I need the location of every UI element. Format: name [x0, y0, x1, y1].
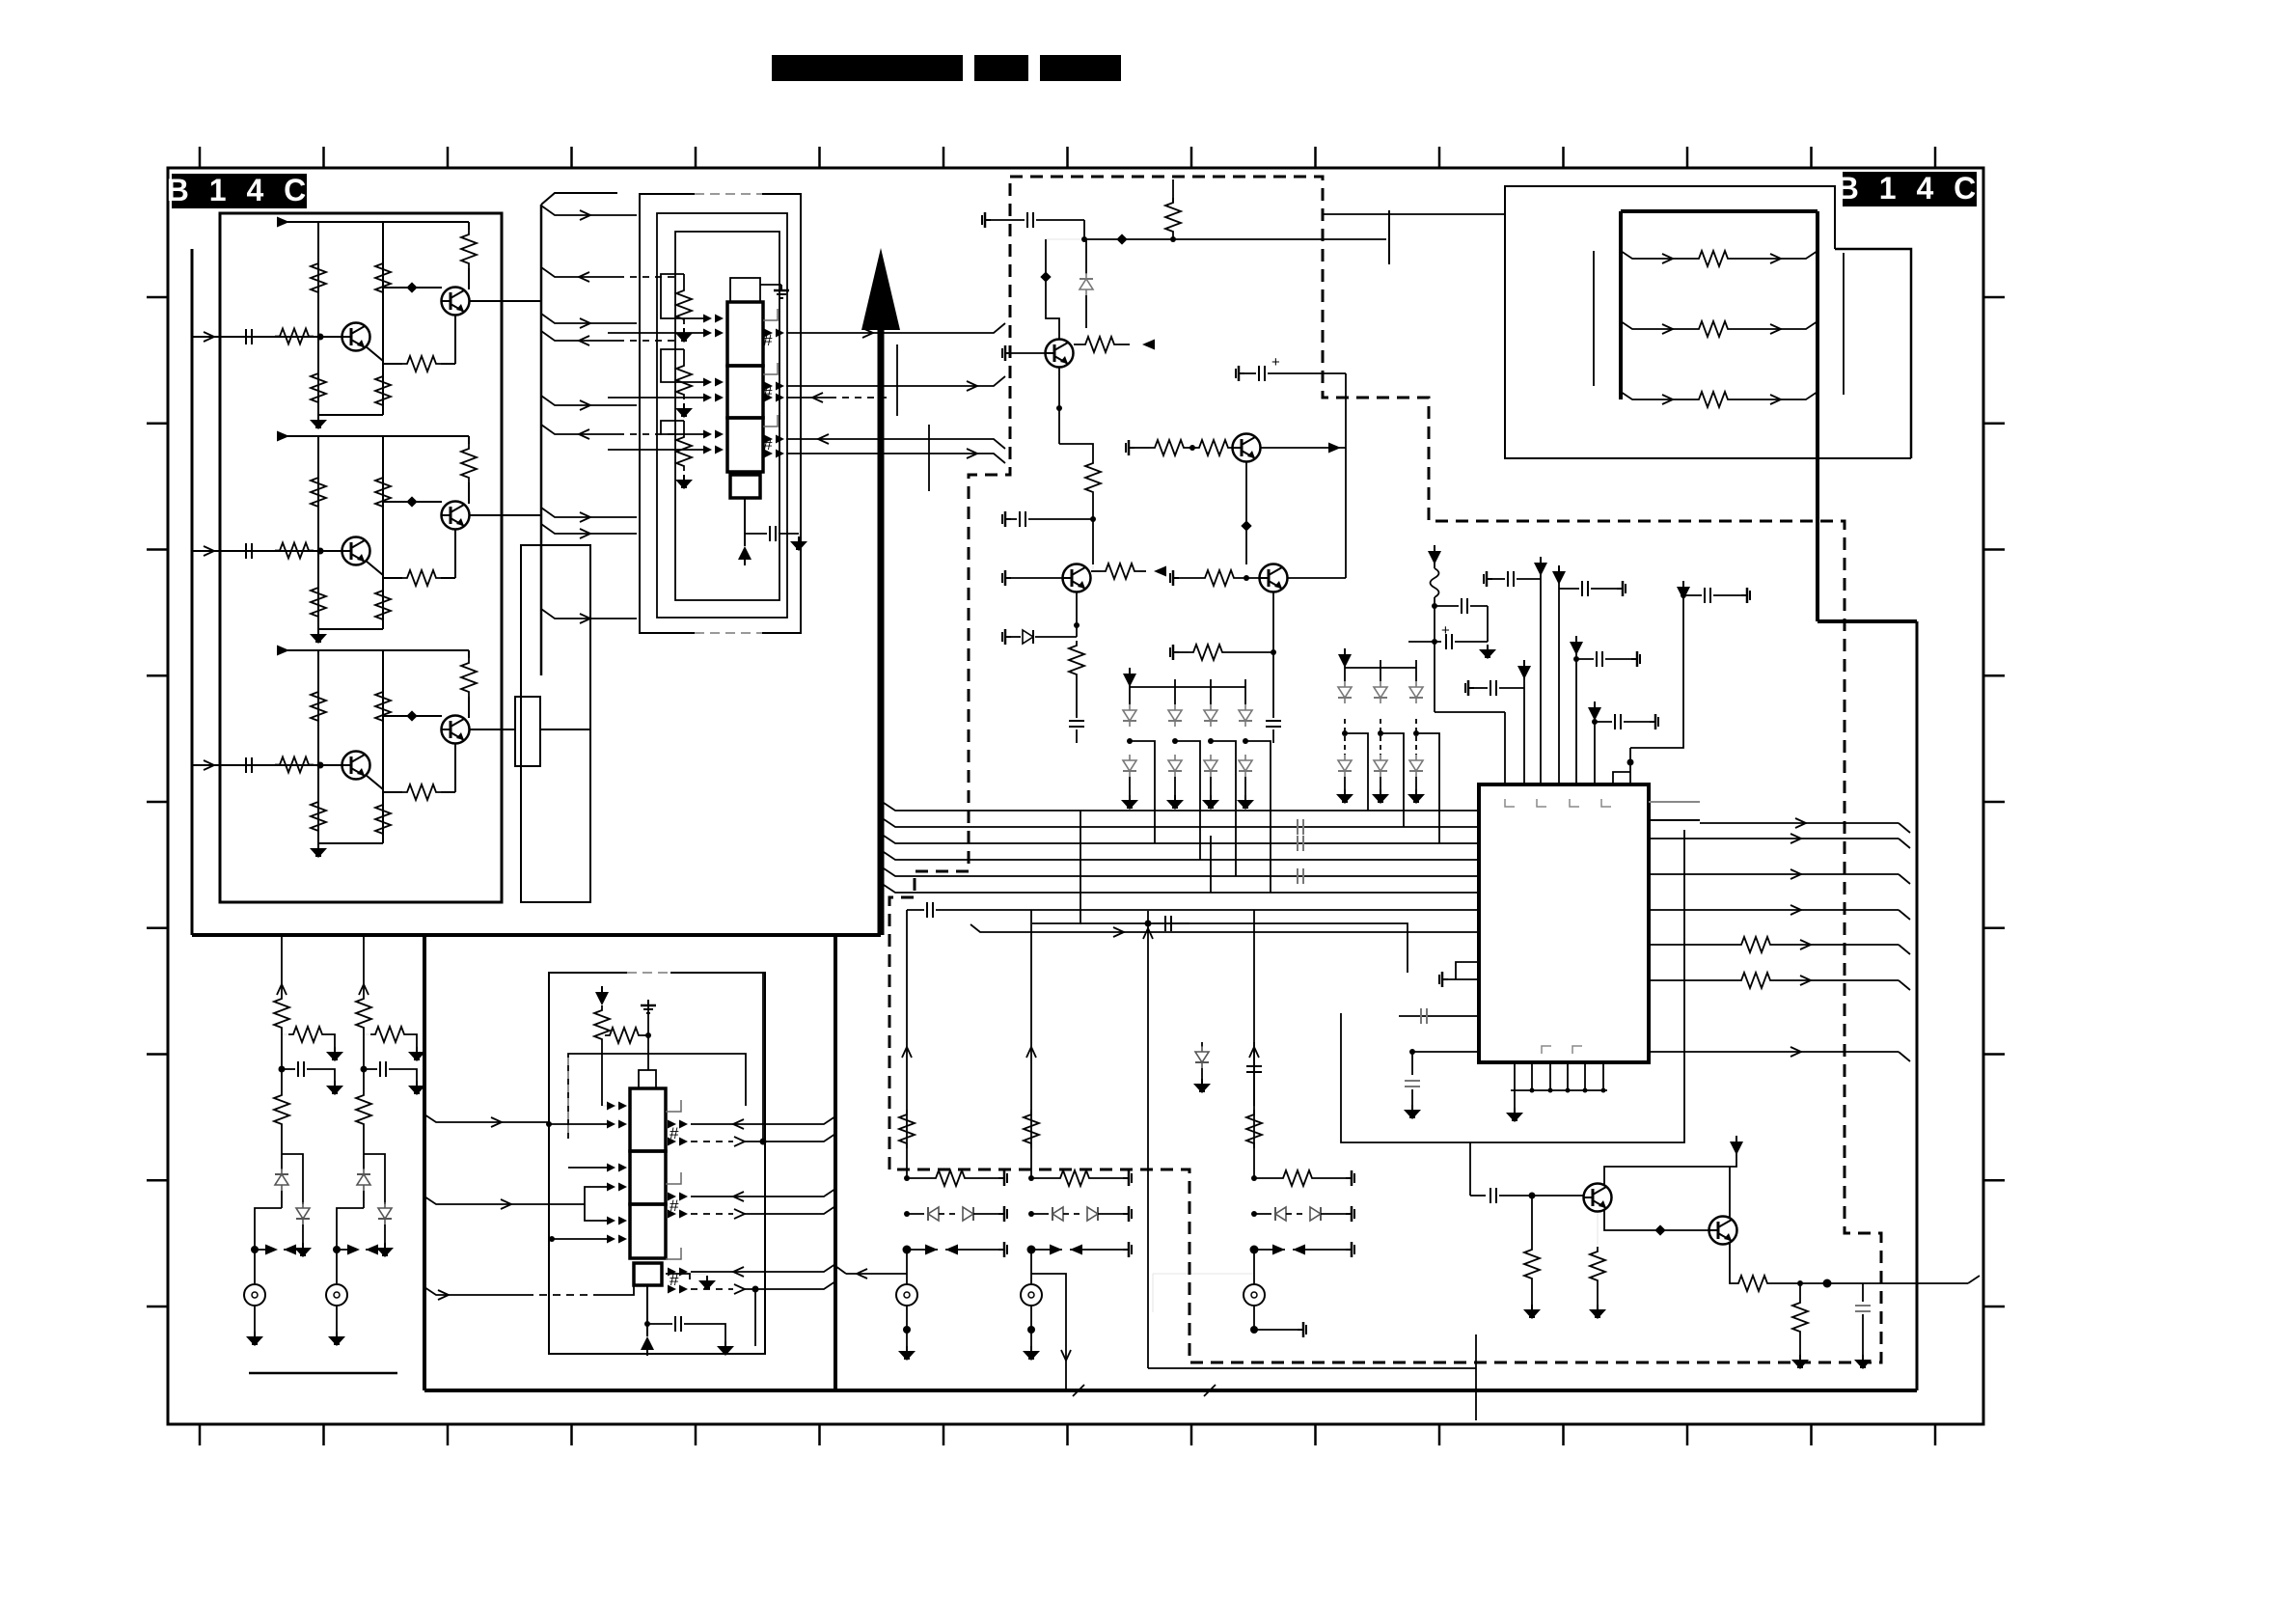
resistor R4h row [1028, 1175, 1034, 1181]
terminal Q5b base [1002, 570, 1011, 586]
resistor R35 [375, 800, 391, 839]
wire bus branch 7 [541, 508, 637, 517]
zener D1a [275, 1169, 288, 1191]
wire CN2 out row 3 [691, 1189, 835, 1197]
capacitor C15 branch [1573, 656, 1579, 662]
wire cap down [1487, 606, 1489, 642]
shield box outer connector 1 [640, 194, 801, 633]
wire IC bottom link [1469, 1142, 1471, 1196]
resistor R32 [311, 687, 326, 726]
jack J4 [1030, 1250, 1032, 1284]
resistor R58 [1799, 1283, 1801, 1298]
baseline under jacks [249, 1372, 397, 1375]
wire CN2 in row 1 [424, 1114, 608, 1124]
node 1a [317, 334, 324, 341]
jack J3 [906, 1250, 908, 1284]
wire jack3 left arrow [846, 1273, 907, 1275]
bus wire 3 [884, 836, 1479, 843]
wire top rail stage 1 [284, 221, 469, 223]
resistor R19 bias [683, 349, 685, 361]
IC bracket mark 2 [1537, 799, 1546, 807]
wire cross vertical 1 [1080, 811, 1081, 924]
wire array A tap 3 [1211, 741, 1236, 876]
wire divider left 1 [317, 222, 319, 415]
capacitor C21 stub [1002, 511, 1011, 527]
bus wire 1 [884, 803, 1479, 811]
pin CN2 left 3 [607, 1164, 627, 1172]
ground R56 [1589, 1305, 1606, 1319]
wire pin row 412 [608, 397, 704, 399]
wire res to pin 0 [684, 273, 727, 275]
transistor Q3a [342, 752, 370, 780]
shield box connector 2 [549, 973, 765, 1354]
wire CN2 feed 1 [602, 1105, 617, 1107]
pin CN2 left 2 [607, 1120, 627, 1129]
wire base link 1 [383, 287, 442, 289]
diode array B top bus [1345, 667, 1416, 669]
power arrow CN2 [641, 1336, 654, 1356]
resistor R17 feedback [383, 363, 402, 365]
IC bracket bottom 2 [1572, 1046, 1582, 1054]
diode row D5a [1251, 1211, 1257, 1217]
resistor R55 [1531, 1196, 1533, 1245]
resistor R34 top [1172, 193, 1174, 203]
IC output wire 2 [1649, 873, 1899, 875]
connector CN1 bottom [730, 475, 760, 498]
resistor R35 [1074, 344, 1080, 345]
resistor R36 [1085, 458, 1101, 497]
connector CN1 top cap box [730, 278, 760, 302]
transistor Q3b [442, 716, 470, 744]
svg-text:#: # [763, 383, 773, 401]
IC output wire 6 [1649, 1051, 1899, 1053]
wire box lower-left of IC [1032, 923, 1408, 973]
pin CN2 right 1 [668, 1120, 688, 1129]
pin CN1 right 3 [764, 394, 784, 402]
wire chain 1 branch [282, 1154, 303, 1204]
resistor R12 [311, 259, 326, 297]
resistor R3h row [904, 1175, 910, 1181]
pin CN1 right 5 [764, 450, 784, 458]
node chain 1 [281, 1032, 283, 1069]
capacitor C17 branch [1681, 592, 1686, 598]
ground D3 [1202, 795, 1219, 810]
wire Q6b collector [1288, 577, 1346, 579]
transistor Q4 [1233, 434, 1261, 462]
title block redaction bar 2 [974, 55, 1028, 81]
ground rail top of bottom section [192, 933, 881, 937]
bus rail vertical mid [834, 935, 837, 1390]
node pin1 [1432, 603, 1437, 609]
sub box right of RGB block [521, 545, 590, 902]
coupling box stage 3 [515, 697, 540, 766]
wire res to pin 2 [684, 420, 727, 422]
bus coupling capacitor c [1298, 868, 1303, 884]
supply arrow pin1 [1428, 545, 1441, 564]
IC bracket mark 4 [1601, 799, 1611, 807]
IC right stub wire 2 [1649, 819, 1700, 821]
wire yoke feed upper [1324, 213, 1505, 215]
wire CN2 in row 3 [424, 1187, 608, 1204]
pin CN2 right 6 [668, 1285, 688, 1294]
diode D4b [1239, 755, 1252, 777]
pin CN1 left 6 [703, 446, 724, 454]
pin CN1 right 2 [764, 382, 784, 391]
wire bus branch 8 [541, 524, 637, 534]
wire IC ground lead [1514, 1090, 1516, 1108]
jack J1 [244, 1284, 265, 1306]
diode D5a [1344, 660, 1346, 681]
yoke stub right [1843, 253, 1845, 395]
resistor R33 [311, 797, 326, 836]
RGB amplifier block outline [220, 213, 502, 902]
diode D4a [1244, 679, 1246, 704]
node arrow stage 1 [277, 217, 289, 228]
IC pin wire 1 [1504, 712, 1506, 784]
diode D1b [296, 1202, 310, 1224]
bus wire 4 [884, 852, 1479, 860]
wire jack5 bar [1254, 1329, 1298, 1331]
svg-text:B 1 4 C: B 1 4 C [167, 173, 312, 207]
inductor L1 [1434, 557, 1435, 568]
pin CN2 left 1 [607, 1102, 627, 1111]
capacitor C21 [246, 543, 252, 559]
wire to cap [745, 533, 767, 535]
wire res to pin 1 [684, 348, 727, 350]
ground D5 [1336, 789, 1353, 804]
resistor R13 [311, 369, 326, 407]
terminal bar [1388, 210, 1390, 264]
wire input Q5 [1470, 1195, 1486, 1197]
diode D1a [1129, 679, 1131, 704]
yoke coil resistor R32 [1621, 392, 1694, 399]
pin CN1 left 5 [703, 430, 724, 439]
supply arrow Q5 [1730, 1136, 1743, 1155]
wire bus branch 9 [541, 609, 637, 619]
jack J5 [1253, 1250, 1255, 1284]
wire emitter 1 [454, 315, 456, 364]
pin CN2 right 5 [668, 1268, 688, 1277]
pin CN2 right 4 [668, 1210, 688, 1219]
connector CN1 body 2 [727, 366, 763, 418]
diode D8 [1085, 239, 1087, 274]
wire CN1 in 1 [786, 397, 830, 399]
bus wire 7 with capacitor [907, 909, 924, 911]
resistor R2c [363, 1069, 365, 1090]
shield box inner connector 1 [675, 232, 779, 600]
resistor R31 [275, 757, 314, 773]
IC pin wire 2 [1523, 668, 1525, 784]
wire array A tap 4 [1245, 741, 1271, 893]
yoke inner box 2 [1835, 249, 1911, 458]
wire Q5 collector [1604, 1149, 1736, 1185]
terminal stub IC left [1439, 972, 1448, 987]
capacitor C16 branch [1592, 719, 1598, 725]
wire jack 4 bottom [1030, 1306, 1032, 1330]
wire CN1 out 1 [786, 323, 1005, 333]
svg-text:#: # [763, 435, 773, 454]
wire CN2 in row 4 [585, 1204, 608, 1221]
pin CN1 left 3 [703, 378, 724, 387]
ground stage 3 [310, 843, 327, 858]
wire CN2 out row 4 dashed [691, 1213, 733, 1215]
arrow row 4 [1027, 1246, 1036, 1254]
ground J2 [336, 1306, 338, 1332]
yoke outer box [1505, 186, 1911, 458]
bus wire 2 [884, 819, 1479, 827]
ground D1b [294, 1243, 312, 1257]
capacitor C31 [1490, 1188, 1496, 1203]
bottom thick rail [424, 1389, 1917, 1392]
connector CN2 body 1 [630, 1088, 666, 1151]
ground D1 [1121, 795, 1138, 810]
wire chain 2 drop [363, 935, 365, 994]
wire array A tap 2 [1175, 741, 1200, 860]
diode D3a [1210, 679, 1212, 704]
wire jack 5 bottom [1253, 1306, 1255, 1330]
bus coupling capacitor a [1298, 819, 1303, 835]
capacitor C31 [246, 757, 252, 773]
capacitor C23 polarized [1236, 366, 1244, 381]
wire bus branch 4 [541, 331, 617, 341]
wire CN2 bottom stub [666, 1274, 690, 1279]
ground C11 [1479, 645, 1496, 659]
wire emitter Q3a [366, 775, 383, 789]
terminal Q3 base [1002, 345, 1011, 361]
IC pin wire 4 [1558, 573, 1560, 784]
node array B 1 [1342, 730, 1348, 736]
diode D2b [378, 1202, 392, 1224]
wire top rail stage 3 [284, 649, 469, 651]
bus rail vertical left [423, 935, 426, 1390]
diode D7a [1415, 660, 1417, 681]
bracket CN2 right 1 [666, 1100, 681, 1112]
signal bus vertical [540, 205, 543, 675]
dashed module boundary [889, 177, 1881, 1362]
diode D2a [1174, 679, 1176, 704]
ground D6 [1372, 789, 1389, 804]
transistor Q2b [442, 502, 470, 530]
terminal R39 R40 base chain [1126, 440, 1134, 455]
capacitor C11 [246, 329, 252, 344]
node array A 1 [1127, 738, 1133, 744]
capacitor C10 [1435, 605, 1459, 607]
transistor Q6b [1260, 564, 1288, 592]
diode D1b [1123, 755, 1136, 777]
wire array B tap 3 [1416, 733, 1439, 843]
ground R19 [675, 403, 693, 418]
wire bus branch 3 [541, 314, 637, 323]
ground D7 [1408, 789, 1425, 804]
diode D2b [1168, 755, 1182, 777]
resistor R1b [282, 1033, 295, 1035]
connector CN2 body 3 [630, 1204, 666, 1258]
pin CN1 right 4 [764, 435, 784, 444]
resistor R5h row [1251, 1175, 1257, 1181]
vertical riser 2 [754, 1289, 756, 1346]
wire jack4 elbow [1031, 1274, 1066, 1390]
diode array A supply [1123, 668, 1136, 687]
capacitor C2a [361, 1066, 368, 1073]
IC pin wire 6 [1594, 709, 1596, 784]
diode D6b [1380, 719, 1381, 755]
wire stage bottom 1 [318, 414, 383, 416]
capacitor C30 [647, 1323, 672, 1325]
connector CN2 bottom box [634, 1263, 662, 1285]
ground C30 [717, 1341, 734, 1356]
node 3a [317, 762, 324, 769]
wire base link 2 [383, 501, 442, 503]
yoke coil resistor R30 [1621, 251, 1694, 259]
svg-text:#: # [670, 1124, 679, 1142]
diode row D4a [1028, 1211, 1034, 1217]
IC bracket bottom 1 [1542, 1046, 1551, 1054]
node 2a [317, 548, 324, 555]
wire IC left lower [1412, 1051, 1479, 1053]
capacitor C19 entry [1399, 1015, 1479, 1017]
resistor R56 [1597, 1212, 1599, 1245]
wire CN2 in row 2 [568, 1167, 608, 1169]
diode branch D12 [1201, 1042, 1203, 1047]
connector CN2 top box [639, 1070, 656, 1088]
capacitor C11 polarized [1408, 641, 1441, 643]
IC ground [1506, 1108, 1523, 1122]
wire CN2 out row 6 dashed [691, 1288, 733, 1290]
ground D4 [1237, 795, 1254, 810]
ground jack 4 [1030, 1330, 1032, 1346]
jack J2 [326, 1284, 347, 1306]
wire array A tap 1 [1130, 741, 1155, 843]
resistor R1a [274, 994, 289, 1032]
pin CN2 left 4 [607, 1183, 627, 1192]
B14C page label top-left [172, 174, 307, 208]
node chain 1 bottom [255, 1208, 282, 1283]
title block redaction bar 1 [772, 55, 963, 81]
wire divider right 2 [382, 436, 384, 629]
diode D9 stub [1002, 629, 1011, 645]
IC pin wire 8 [1629, 748, 1631, 784]
wire drop to border [1475, 1334, 1477, 1420]
IC output wire 1 [1649, 838, 1899, 839]
wire chevron crossing 2 [1204, 1385, 1216, 1396]
IC output wire 3 [1649, 909, 1899, 911]
capacitor C22 [1069, 721, 1084, 727]
annotation stroke 1 [896, 344, 898, 416]
IC bracket mark 3 [1570, 799, 1579, 807]
wire cross vertical 3 [1210, 836, 1212, 893]
pin CN2 right 3 [668, 1193, 688, 1201]
transistor Q6 [1709, 1217, 1737, 1245]
node array B 3 [1413, 730, 1419, 736]
wire pin row 345 [608, 332, 704, 334]
resistor R37 [1091, 570, 1101, 572]
svg-text:+: + [1441, 622, 1450, 639]
pin CN2 left 6 [607, 1235, 627, 1244]
wire chevron crossing 1 [1073, 1385, 1084, 1396]
pin CN1 left 4 [703, 394, 724, 402]
capacitor C24 [1272, 652, 1274, 718]
ground jack 3 [906, 1330, 908, 1346]
wire bus branch 6 [541, 425, 617, 434]
transistor Q1a [342, 323, 370, 351]
wire chain 2 branch [364, 1154, 385, 1204]
wire diode to Q3 [1085, 295, 1087, 328]
wire pin row 466 [608, 449, 704, 451]
yoke thick bracket [1619, 211, 1623, 399]
wire CN1 out 2 [786, 376, 1005, 386]
wire yoke link [1392, 213, 1505, 215]
node chain 2 [363, 1032, 365, 1069]
resistor R5v [1246, 1110, 1262, 1148]
wire CN2 bottom lead [646, 1285, 648, 1336]
diode D3b [1204, 755, 1217, 777]
IC bottom pins [1514, 1062, 1516, 1090]
resistor R15 [375, 371, 391, 410]
node array A 4 [1243, 738, 1248, 744]
wire divider right 1 [382, 222, 384, 415]
capacitor C20 top left [982, 212, 991, 228]
wire CN2 out row 1 [691, 1116, 835, 1124]
bottom edge tick marks [199, 1424, 202, 1445]
wire output stage 3 [469, 729, 515, 730]
wire jack 3 bottom [906, 1306, 908, 1330]
wire column 4 [1030, 910, 1032, 1178]
wire CN2 out row 5 [691, 1264, 835, 1272]
sheet border frame [168, 168, 1983, 1424]
capacitor C9 [770, 526, 776, 541]
wire CN2 dashed feed [424, 1287, 526, 1295]
wire jack5 left link [1153, 1274, 1254, 1312]
signal flow big arrow [861, 248, 900, 330]
left edge tick marks [147, 296, 168, 299]
wire cross vertical 2 long [1147, 911, 1149, 1368]
wire Q4 collector net [1345, 373, 1347, 578]
resistor R36 collector [468, 650, 470, 658]
resistor R1c [281, 1069, 283, 1090]
wire emitter 3 [454, 743, 456, 792]
transistor Q5 [1584, 1184, 1612, 1212]
right edge tick marks [1983, 296, 2005, 299]
resistor R27 feedback [383, 577, 402, 579]
capacitor C12 branch [1465, 680, 1474, 696]
yoke coil resistor R31 [1621, 321, 1694, 329]
ground stage 2 [310, 629, 327, 644]
node array A 2 [1172, 738, 1178, 744]
pin CN1 left 2 [703, 329, 724, 338]
diode D5b [1344, 719, 1346, 755]
wire array B tap 1 [1345, 733, 1368, 811]
power arrow CN1 [744, 534, 746, 546]
pin CN1 right 1 [764, 329, 784, 338]
wire chain 1 drop [281, 935, 283, 994]
wire stage bottom 2 [318, 628, 383, 630]
resistor R21 [275, 543, 314, 559]
node diamond top [1116, 234, 1127, 244]
wire divider left 2 [317, 436, 319, 629]
wire Q6 emitter resistor R57 [1730, 1243, 1734, 1283]
connector CN2 body 2 [630, 1151, 666, 1204]
capacitor C32 [1862, 1283, 1864, 1302]
resistor R2b [364, 1033, 377, 1035]
svg-text:+: + [1271, 354, 1280, 371]
ground R55 [1523, 1305, 1541, 1319]
resistor R22 [311, 473, 326, 511]
ground D2b [376, 1243, 394, 1257]
bus wire 5 [884, 868, 1479, 876]
node arrow stage 2 [277, 431, 289, 442]
wire C20 down [1083, 220, 1085, 239]
resistor R18 bias [683, 274, 685, 286]
